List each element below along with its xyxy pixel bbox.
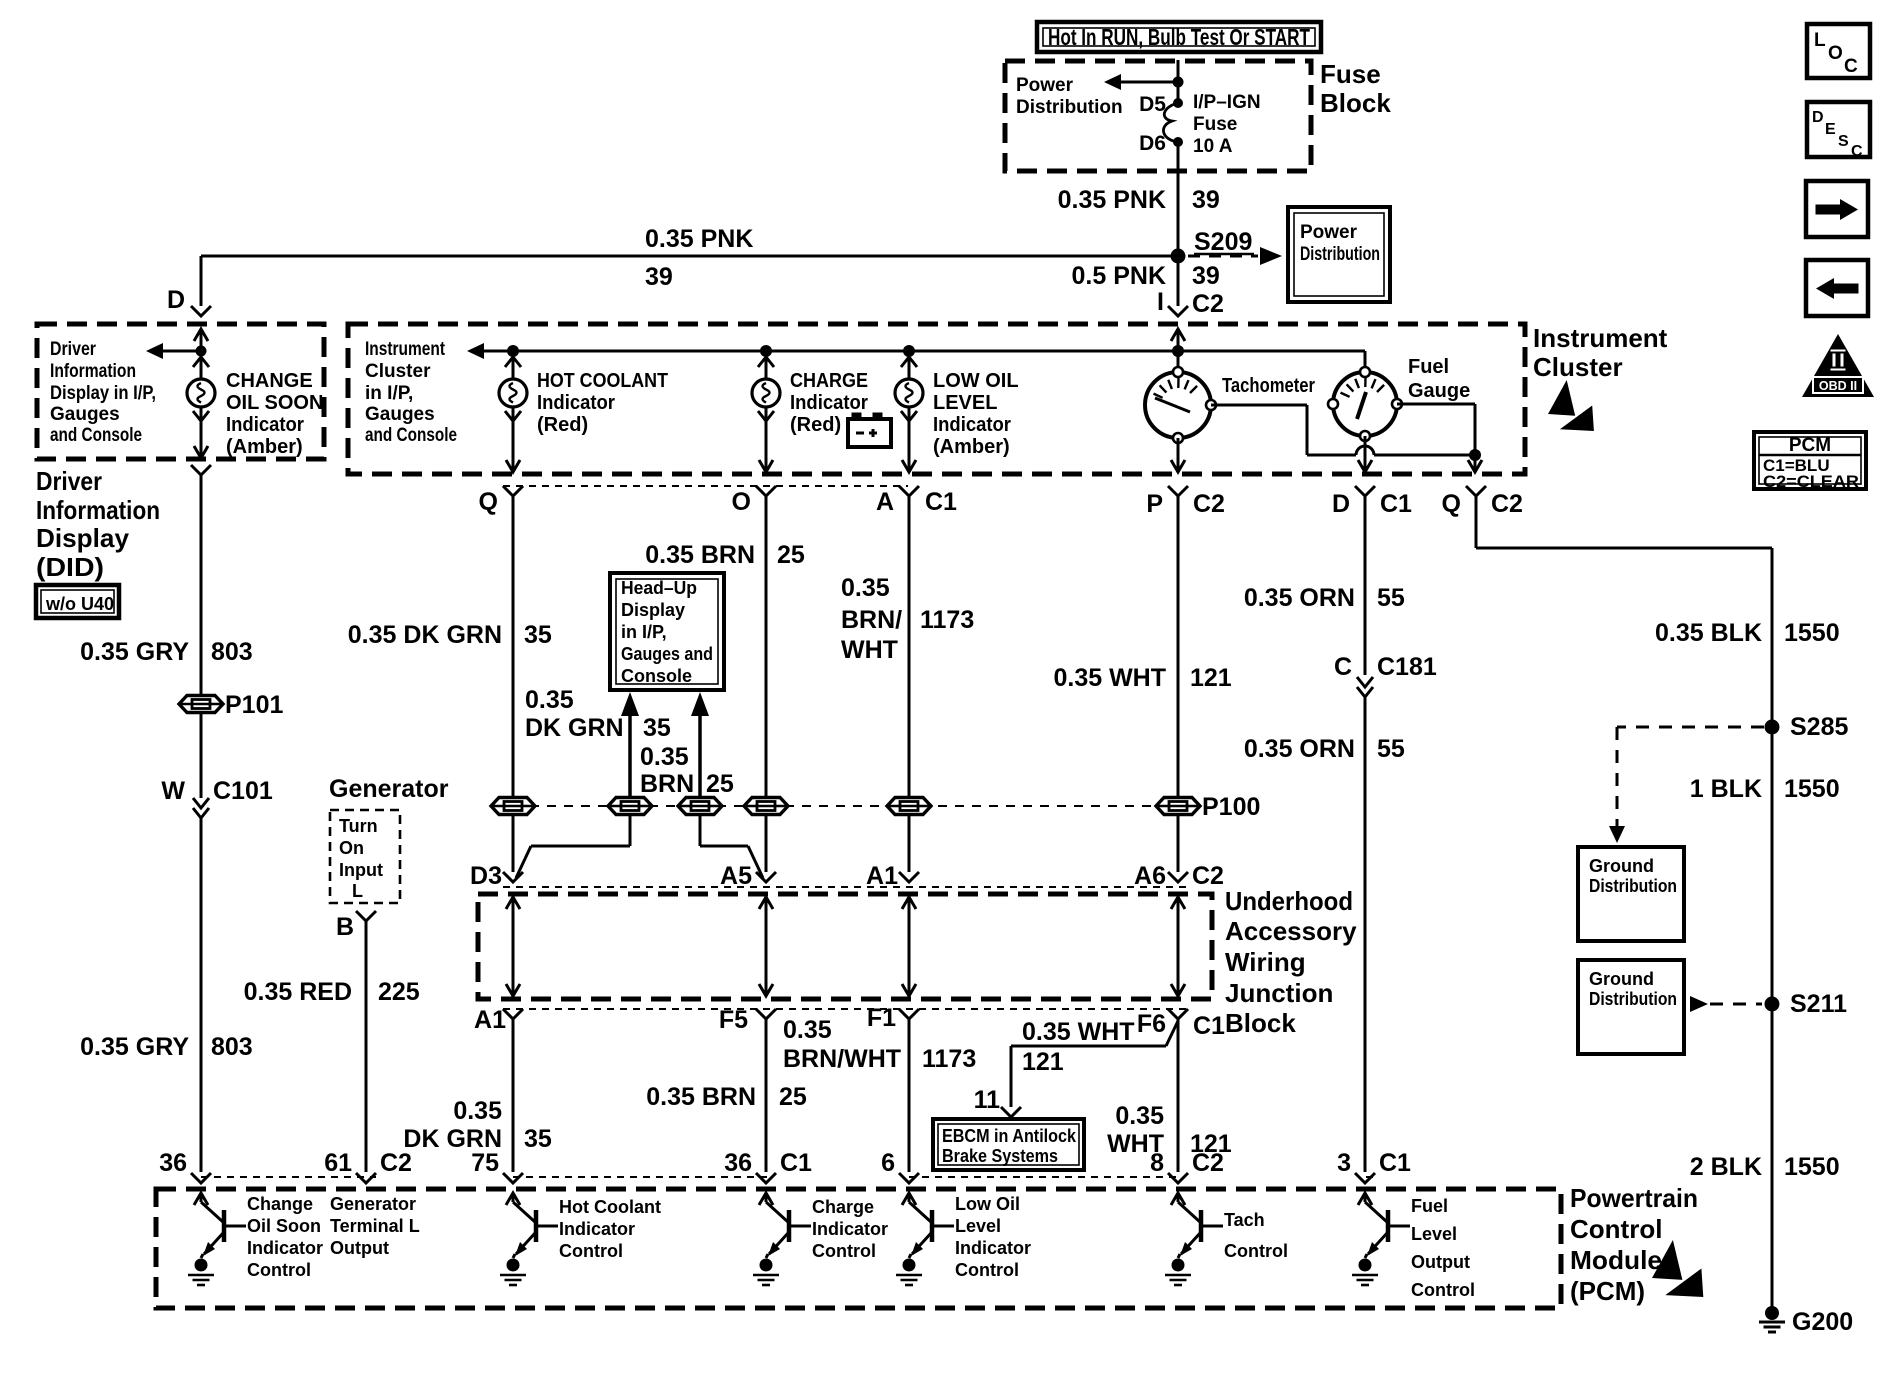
wire 0.35 BRN/WHT 1173 (A to P100) xyxy=(908,496,911,798)
lamp Charge indicator xyxy=(765,351,768,379)
DID exit arrow and connector xyxy=(194,446,208,458)
connector pin A1 (underhood top) xyxy=(899,872,919,882)
svg-text:55: 55 xyxy=(1377,584,1405,612)
connector pin 75 (PCM) xyxy=(503,1173,523,1183)
svg-text:C2: C2 xyxy=(1192,290,1224,318)
powertrain control module dashed box xyxy=(156,1189,1561,1308)
icon box LOC xyxy=(1807,24,1870,78)
svg-text:0.35 WHT: 0.35 WHT xyxy=(1022,1018,1135,1046)
svg-text:Display in I/P,: Display in I/P, xyxy=(50,383,156,404)
connector pin P100 (dk grn) xyxy=(491,798,535,815)
svg-text:S211: S211 xyxy=(1790,990,1847,1018)
underhood bottom dashed connector line xyxy=(503,1008,1188,1010)
connector pin P100 (brn/wht) xyxy=(887,798,931,815)
svg-text:Control: Control xyxy=(247,1260,311,1280)
svg-text:55: 55 xyxy=(1377,735,1405,763)
svg-text:C: C xyxy=(1844,56,1858,77)
svg-text:Underhood: Underhood xyxy=(1225,886,1353,916)
svg-text:PCM: PCM xyxy=(1789,435,1831,456)
svg-text:I/P–IGN: I/P–IGN xyxy=(1193,92,1261,113)
svg-text:BRN/WHT: BRN/WHT xyxy=(783,1045,901,1073)
fuel gauge xyxy=(1333,372,1397,436)
svg-text:0.35 PNK: 0.35 PNK xyxy=(1058,186,1166,214)
connector pin A6 C2 xyxy=(1168,872,1188,882)
svg-text:Block: Block xyxy=(1225,1008,1296,1038)
cluster feed entry arrow xyxy=(1171,329,1185,341)
underhood top dashed connector line xyxy=(503,886,1186,888)
svg-text:OBD II: OBD II xyxy=(1819,379,1857,393)
connector pin 61 C2 (PCM) xyxy=(356,1173,376,1183)
svg-text:CHANGE: CHANGE xyxy=(226,370,313,392)
transistor Q3 charge indicator control xyxy=(759,1193,773,1205)
svg-text:C181: C181 xyxy=(1377,653,1437,681)
svg-text:C2: C2 xyxy=(1192,1149,1224,1177)
svg-text:1 BLK: 1 BLK xyxy=(1690,775,1762,803)
svg-text:39: 39 xyxy=(645,263,673,291)
wire 2 BLK 1550 (Q C2 to G200) xyxy=(1475,496,1478,548)
svg-text:Generator: Generator xyxy=(330,1194,416,1214)
junction block pass-through wire x=909 xyxy=(908,897,911,996)
svg-text:and Console: and Console xyxy=(365,425,457,446)
node S285 xyxy=(1765,720,1780,735)
svg-text:803: 803 xyxy=(211,638,253,666)
svg-text:Driver: Driver xyxy=(50,339,97,360)
transistor Q5 tach control xyxy=(1171,1193,1185,1205)
connector D into DID xyxy=(191,306,211,316)
svg-text:0.35 GRY: 0.35 GRY xyxy=(80,638,189,666)
svg-text:F1: F1 xyxy=(867,1004,896,1032)
svg-text:Display: Display xyxy=(36,523,130,553)
svg-text:D6: D6 xyxy=(1139,132,1166,155)
svg-text:C: C xyxy=(1334,653,1352,681)
svg-text:803: 803 xyxy=(211,1033,253,1061)
connector pin 8 C2 (PCM) xyxy=(1168,1173,1188,1183)
transistor Q2 hot coolant indicator control xyxy=(506,1193,520,1205)
connector pin 6 (PCM) xyxy=(899,1173,919,1183)
svg-text:Charge: Charge xyxy=(812,1197,874,1217)
svg-text:E: E xyxy=(1825,121,1836,138)
wire 0.35 ORN 55 (C181 to PCM) xyxy=(1364,697,1367,1172)
svg-text:Powertrain: Powertrain xyxy=(1570,1183,1698,1213)
instrument cluster dashed box xyxy=(348,324,1525,474)
wire 0.35 BRN 25 (O to P100) xyxy=(765,496,768,798)
svg-text:B: B xyxy=(336,913,354,941)
EBCM box xyxy=(933,1119,1084,1170)
svg-text:W: W xyxy=(161,777,185,805)
svg-text:L: L xyxy=(352,881,363,901)
svg-text:Generator: Generator xyxy=(329,775,449,803)
svg-text:0.35 ORN: 0.35 ORN xyxy=(1244,735,1355,763)
svg-text:0.35 GRY: 0.35 GRY xyxy=(80,1033,189,1061)
wire 0.35 BRN 25 (F5 to PCM 36) xyxy=(765,1019,768,1172)
svg-text:Indicator: Indicator xyxy=(933,414,1011,436)
dashed branch S285 to ground distribution xyxy=(1617,726,1764,729)
wire to D3 xyxy=(512,814,515,872)
svg-text:Wiring: Wiring xyxy=(1225,947,1306,977)
svg-text:G200: G200 xyxy=(1792,1308,1853,1336)
svg-text:Accessory: Accessory xyxy=(1225,916,1357,946)
svg-text:Fuel: Fuel xyxy=(1411,1196,1448,1216)
underhood junction block dashed box xyxy=(478,894,1212,999)
branch wire to head-up display (brn) xyxy=(748,846,763,878)
svg-text:P101: P101 xyxy=(225,691,283,719)
svg-text:Output: Output xyxy=(330,1238,389,1258)
svg-text:Indicator: Indicator xyxy=(559,1219,635,1239)
transistor Q6 fuel level output control xyxy=(1358,1193,1372,1205)
svg-text:61: 61 xyxy=(324,1149,352,1177)
svg-text:Distribution: Distribution xyxy=(1589,876,1677,896)
connector pin 3 C1 (PCM) xyxy=(1355,1173,1375,1183)
svg-text:Distribution: Distribution xyxy=(1016,97,1123,118)
wire 0.35 BRN/WHT 1173 (F1 to PCM 6) xyxy=(908,1019,911,1172)
svg-text:Module: Module xyxy=(1570,1245,1662,1275)
svg-text:On: On xyxy=(339,838,364,858)
transistor Q4 low oil level indicator control xyxy=(902,1193,916,1205)
svg-text:Instrument: Instrument xyxy=(1533,323,1668,353)
svg-text:F6: F6 xyxy=(1137,1010,1166,1038)
svg-text:D: D xyxy=(1812,109,1824,126)
svg-text:OIL SOON: OIL SOON xyxy=(226,392,323,414)
svg-text:Indicator: Indicator xyxy=(247,1238,323,1258)
svg-text:225: 225 xyxy=(378,978,420,1006)
connector pin D3 xyxy=(503,872,523,882)
svg-text:2 BLK: 2 BLK xyxy=(1690,1153,1762,1181)
svg-text:P: P xyxy=(1146,490,1163,518)
svg-text:Q: Q xyxy=(1442,490,1461,518)
svg-text:O: O xyxy=(732,488,751,516)
wire to A6 xyxy=(1177,814,1180,872)
svg-text:CHARGE: CHARGE xyxy=(790,370,868,392)
icon OBD II triangle xyxy=(1802,334,1874,397)
svg-text:Fuse: Fuse xyxy=(1193,114,1237,135)
generator turn-on-input dashed box xyxy=(330,810,400,903)
power distribution box (right) xyxy=(1288,207,1390,302)
battery symbol xyxy=(852,413,861,420)
svg-text:1173: 1173 xyxy=(922,1045,976,1073)
svg-text:D3: D3 xyxy=(470,862,502,890)
svg-text:Hot In RUN, Bulb Test Or START: Hot In RUN, Bulb Test Or START xyxy=(1048,24,1310,50)
svg-text:WHT: WHT xyxy=(841,636,898,664)
svg-text:1550: 1550 xyxy=(1784,1153,1840,1181)
wire 0.35 WHT 121 (F6 to PCM 8) xyxy=(1177,1019,1180,1172)
svg-text:Indicator: Indicator xyxy=(226,414,304,436)
wire into DID with left arrow xyxy=(194,329,208,341)
svg-text:Control: Control xyxy=(955,1260,1019,1280)
svg-text:Brake Systems: Brake Systems xyxy=(942,1146,1058,1166)
wire 0.35 RED 225 (generator to PCM) xyxy=(365,921,368,1172)
svg-text:35: 35 xyxy=(524,621,552,649)
svg-text:Ground: Ground xyxy=(1589,969,1654,989)
svg-text:0.35 BRN: 0.35 BRN xyxy=(645,541,755,569)
svg-text:Display: Display xyxy=(621,600,685,620)
cluster C1 connector dashed line xyxy=(503,485,908,487)
label box w/o U40 xyxy=(36,585,119,618)
svg-text:Distribution: Distribution xyxy=(1589,989,1677,1009)
svg-text:C2: C2 xyxy=(1193,490,1225,518)
svg-text:8: 8 xyxy=(1150,1149,1164,1177)
svg-text:Terminal L: Terminal L xyxy=(330,1216,420,1236)
icon box arrow left xyxy=(1806,260,1868,316)
svg-text:S209: S209 xyxy=(1194,228,1252,256)
connector I C2 into cluster xyxy=(1168,306,1188,316)
svg-text:Fuse: Fuse xyxy=(1320,59,1381,89)
svg-text:Gauge: Gauge xyxy=(1408,380,1470,402)
P100 dashed line xyxy=(513,805,1178,807)
svg-text:Indicator: Indicator xyxy=(955,1238,1031,1258)
svg-text:C1: C1 xyxy=(1380,490,1412,518)
svg-text:0.35 PNK: 0.35 PNK xyxy=(645,225,753,253)
svg-text:0.35 BLK: 0.35 BLK xyxy=(1655,619,1762,647)
svg-text:36: 36 xyxy=(159,1149,187,1177)
connector pin A1 (underhood bottom) xyxy=(503,1009,523,1019)
svg-text:Driver: Driver xyxy=(36,466,102,496)
svg-text:121: 121 xyxy=(1022,1048,1064,1076)
svg-text:Instrument: Instrument xyxy=(365,339,446,360)
svg-text:Tachometer: Tachometer xyxy=(1222,375,1315,397)
svg-text:Change: Change xyxy=(247,1194,313,1214)
connector pin P100 (head-up dk grn) xyxy=(608,798,652,815)
svg-text:Gauges: Gauges xyxy=(50,404,120,425)
svg-text:Control: Control xyxy=(812,1241,876,1261)
svg-text:0.35: 0.35 xyxy=(841,574,890,602)
cluster bus wire xyxy=(480,350,1365,353)
ground G200 xyxy=(1765,1306,1779,1320)
svg-text:Power: Power xyxy=(1016,75,1074,96)
lamp CHANGE OIL SOON indicator xyxy=(200,351,203,379)
svg-text:Cluster: Cluster xyxy=(1533,352,1623,382)
svg-text:Information: Information xyxy=(36,495,160,525)
svg-text:Indicator: Indicator xyxy=(537,392,615,414)
transistor Q1 change oil soon indicator control xyxy=(194,1193,208,1205)
connector pin Q C2 (cluster) xyxy=(1466,486,1486,496)
connector pin A5 xyxy=(756,872,776,882)
junction block pass-through wire x=1178 xyxy=(1177,897,1180,996)
svg-text:A6: A6 xyxy=(1134,862,1166,890)
fuse I/P-IGN 10A xyxy=(1173,98,1183,108)
svg-text:Block: Block xyxy=(1320,88,1391,118)
wire 0.5 PNK 39 (S209 down) xyxy=(1177,256,1180,306)
svg-text:25: 25 xyxy=(777,541,805,569)
svg-text:S: S xyxy=(1838,133,1849,150)
svg-text:Gauges and: Gauges and xyxy=(621,644,713,664)
wire tach output to Q C2 xyxy=(1211,404,1307,407)
svg-text:L: L xyxy=(1814,30,1826,51)
connector pin 36 (PCM) xyxy=(191,1173,211,1183)
svg-text:Indicator: Indicator xyxy=(790,392,868,414)
connector pin A C1 (cluster) xyxy=(899,486,919,496)
svg-text:1550: 1550 xyxy=(1784,619,1840,647)
wire 0.35 PNK 39 (S209 to D) xyxy=(201,255,1178,258)
svg-text:10 A: 10 A xyxy=(1193,136,1233,157)
PCM legend box xyxy=(1754,432,1866,489)
svg-text:LEVEL: LEVEL xyxy=(933,392,997,414)
svg-text:Turn: Turn xyxy=(339,816,378,836)
wire to C101 xyxy=(200,713,203,798)
svg-text:Oil Soon: Oil Soon xyxy=(247,1216,321,1236)
node S211 xyxy=(1765,997,1780,1012)
esd symbol in cluster xyxy=(1548,380,1575,416)
svg-text:C: C xyxy=(1851,143,1863,160)
svg-text:1550: 1550 xyxy=(1784,775,1840,803)
wire 0.35 DK GRN 35 (A1 to PCM 75) xyxy=(512,1019,515,1172)
svg-text:25: 25 xyxy=(779,1083,807,1111)
tachometer gauge xyxy=(1177,351,1180,367)
wire fuel gauge right to Q C2 xyxy=(1397,403,1475,406)
svg-text:EBCM in Antilock: EBCM in Antilock xyxy=(942,1126,1077,1146)
connector pin 11 (EBCM) xyxy=(1001,1107,1021,1117)
connector C C181 xyxy=(1357,677,1373,687)
svg-text:S285: S285 xyxy=(1790,713,1848,741)
wire fuel bottom exit xyxy=(1364,436,1367,472)
svg-text:C2: C2 xyxy=(1491,490,1523,518)
svg-text:Level: Level xyxy=(955,1216,1001,1236)
svg-text:HOT COOLANT: HOT COOLANT xyxy=(537,370,668,392)
svg-text:0.35 DK GRN: 0.35 DK GRN xyxy=(348,621,502,649)
head-up display box xyxy=(610,573,724,690)
PCM connector dashed lines xyxy=(201,1176,376,1178)
svg-text:O: O xyxy=(1828,43,1843,64)
icon box DESC xyxy=(1807,102,1870,157)
svg-text:25: 25 xyxy=(706,770,734,798)
svg-text:C2=CLEAR: C2=CLEAR xyxy=(1763,472,1859,491)
svg-text:35: 35 xyxy=(524,1125,552,1153)
svg-text:0.35 BRN: 0.35 BRN xyxy=(646,1083,756,1111)
svg-text:6: 6 xyxy=(881,1149,895,1177)
connector pin P C2 (cluster) xyxy=(1168,486,1188,496)
svg-text:BRN: BRN xyxy=(640,770,694,798)
svg-text:BRN/: BRN/ xyxy=(841,606,902,634)
svg-text:Fuel: Fuel xyxy=(1408,356,1449,378)
svg-text:Output: Output xyxy=(1411,1252,1470,1272)
svg-text:C1: C1 xyxy=(1379,1149,1411,1177)
svg-text:Power: Power xyxy=(1300,222,1358,243)
svg-text:39: 39 xyxy=(1192,186,1220,214)
arrow wire into head-up display (dk grn) xyxy=(628,712,632,798)
dashed arrow ground distribution 2 to S211 xyxy=(1690,996,1708,1012)
wire 0.35 PNK 39 (fuse to S209) xyxy=(1177,142,1180,256)
arrow wire into head-up display (brn) xyxy=(698,712,702,798)
svg-text:Console: Console xyxy=(621,666,692,686)
svg-text:LOW OIL: LOW OIL xyxy=(933,370,1019,392)
driver information display dashed box xyxy=(37,324,324,459)
wire 0.35 DK GRN 35 (Q to P100) xyxy=(512,496,515,798)
svg-text:36: 36 xyxy=(724,1149,752,1177)
connector pin B xyxy=(356,911,376,921)
svg-text:39: 39 xyxy=(1192,262,1220,290)
svg-text:Input: Input xyxy=(339,860,383,880)
wire: fuse feed with arrow to power distribution xyxy=(1177,60,1180,103)
connector pin Q (cluster) xyxy=(503,486,523,496)
connector pin P100 (brn) xyxy=(744,798,788,815)
svg-text:Control: Control xyxy=(1570,1214,1662,1244)
svg-text:C1: C1 xyxy=(925,488,957,516)
connector W C101 xyxy=(193,798,209,808)
label box: Hot In RUN, Bulb Test Or START xyxy=(1037,22,1321,52)
svg-text:A5: A5 xyxy=(720,862,752,890)
esd symbol at PCM xyxy=(1652,1240,1682,1280)
svg-text:(PCM): (PCM) xyxy=(1570,1276,1645,1306)
svg-text:Information: Information xyxy=(50,361,136,382)
junction block pass-through wire x=513 xyxy=(512,897,515,996)
svg-text:0.35: 0.35 xyxy=(453,1097,502,1125)
fuse block dashed box xyxy=(1005,61,1311,171)
connector pin P101 xyxy=(179,696,223,713)
connector pin F1 xyxy=(899,1009,919,1019)
connector pin F5 xyxy=(756,1009,776,1019)
ground distribution box 1 xyxy=(1578,847,1684,941)
svg-text:C1: C1 xyxy=(1193,1012,1225,1040)
icon box arrow right xyxy=(1806,181,1868,237)
node S209 xyxy=(1171,249,1186,264)
svg-text:0.35 ORN: 0.35 ORN xyxy=(1244,584,1355,612)
svg-text:0.5 PNK: 0.5 PNK xyxy=(1072,262,1166,290)
wire 0.35 WHT 121 (P to P100) xyxy=(1177,496,1180,798)
connector pin F6 C1 xyxy=(1168,1009,1188,1019)
svg-text:C2: C2 xyxy=(1192,862,1224,890)
svg-text:(Red): (Red) xyxy=(537,414,588,436)
svg-text:121: 121 xyxy=(1190,664,1232,692)
svg-text:0.35 WHT: 0.35 WHT xyxy=(1053,664,1166,692)
junction block pass-through wire x=766 xyxy=(765,897,768,996)
wire to A1 (underhood) xyxy=(908,814,911,872)
svg-text:Ground: Ground xyxy=(1589,856,1654,876)
svg-text:Low Oil: Low Oil xyxy=(955,1194,1020,1214)
svg-text:w/o U40: w/o U40 xyxy=(45,594,114,614)
lamp Low Oil indicator xyxy=(908,351,911,379)
svg-text:I: I xyxy=(1157,288,1164,316)
svg-text:Hot Coolant: Hot Coolant xyxy=(559,1197,661,1217)
svg-text:C101: C101 xyxy=(213,777,273,805)
svg-text:0.35: 0.35 xyxy=(783,1016,832,1044)
svg-text:D5: D5 xyxy=(1139,93,1166,116)
svg-text:DK GRN: DK GRN xyxy=(525,714,624,742)
svg-text:C2: C2 xyxy=(380,1149,412,1177)
svg-text:1173: 1173 xyxy=(920,606,974,634)
arrow to power distribution box xyxy=(1188,255,1258,258)
svg-text:C1: C1 xyxy=(780,1149,812,1177)
wire 0.35 ORN 55 (D to C181) xyxy=(1364,496,1367,675)
connector pin P100 (head-up brn) xyxy=(678,798,722,815)
svg-text:(DID): (DID) xyxy=(36,552,104,582)
svg-text:11: 11 xyxy=(974,1086,1001,1114)
svg-text:Cluster: Cluster xyxy=(365,361,431,382)
svg-text:Control: Control xyxy=(1224,1241,1288,1261)
svg-text:Level: Level xyxy=(1411,1224,1457,1244)
svg-text:75: 75 xyxy=(471,1149,499,1177)
svg-text:Head–Up: Head–Up xyxy=(621,578,697,598)
svg-text:35: 35 xyxy=(643,714,671,742)
svg-text:D: D xyxy=(167,286,185,314)
svg-text:Control: Control xyxy=(1411,1280,1475,1300)
svg-text:0.35: 0.35 xyxy=(1115,1102,1164,1130)
svg-text:Q: Q xyxy=(479,488,498,516)
connector pin 36 C1 (PCM) xyxy=(756,1173,776,1183)
svg-text:Tach: Tach xyxy=(1224,1210,1265,1230)
svg-text:F5: F5 xyxy=(719,1006,748,1034)
svg-text:A1: A1 xyxy=(866,862,898,890)
wire 0.35 GRY 803 (lower) xyxy=(200,818,203,1172)
svg-text:3: 3 xyxy=(1337,1149,1351,1177)
svg-text:in I/P,: in I/P, xyxy=(621,622,667,642)
svg-text:and Console: and Console xyxy=(50,425,142,446)
svg-text:0.35: 0.35 xyxy=(640,743,689,771)
svg-text:0.35 RED: 0.35 RED xyxy=(244,978,352,1006)
branch wire to head-up display (dk grn) xyxy=(516,846,531,878)
svg-text:(Amber): (Amber) xyxy=(226,436,303,458)
svg-text:Junction: Junction xyxy=(1225,978,1333,1008)
svg-text:D: D xyxy=(1332,490,1350,518)
wire tach bottom exit xyxy=(1177,438,1180,472)
